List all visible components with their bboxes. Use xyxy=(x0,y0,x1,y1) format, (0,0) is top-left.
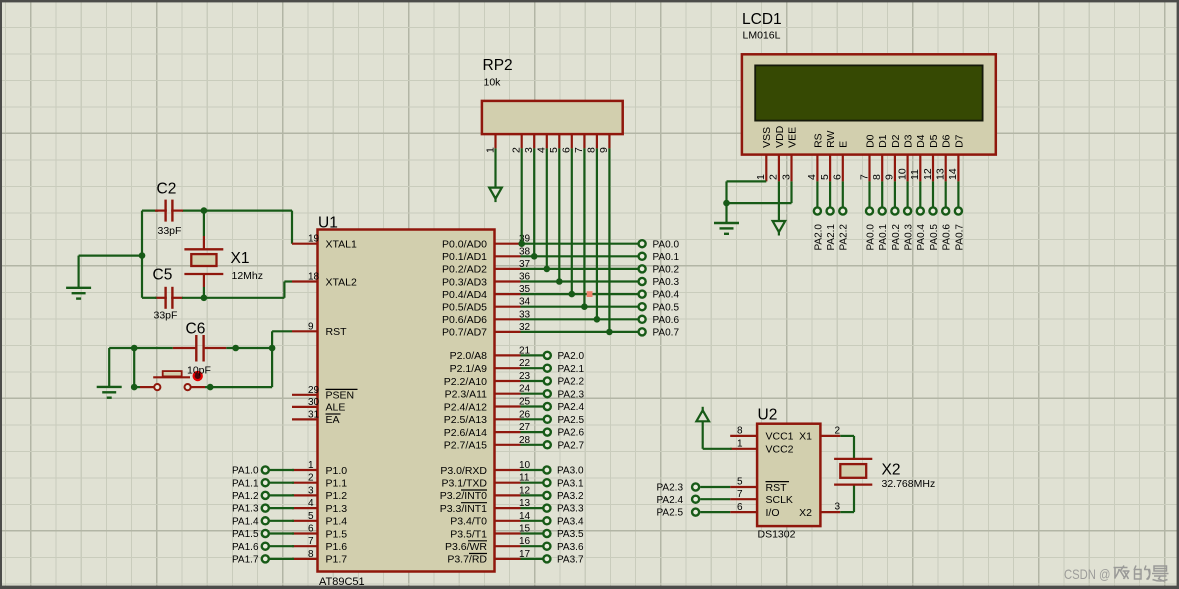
svg-text:I/O: I/O xyxy=(766,507,780,519)
wire LCD D4 to terminal xyxy=(919,181,921,207)
svg-text:P1.6: P1.6 xyxy=(326,541,348,553)
svg-text:VCC2: VCC2 xyxy=(766,444,794,456)
LCD pin 11 D4 (stub + number + name) xyxy=(909,134,927,181)
svg-text:PA2.3: PA2.3 xyxy=(657,483,684,494)
wire P0.5 row xyxy=(521,306,639,308)
junction button right lead xyxy=(207,384,214,391)
svg-text:PA0.5: PA0.5 xyxy=(653,302,680,313)
terminal PA2.4 (at P2.4) xyxy=(521,402,585,413)
RP2 pin 5 (stub + number) xyxy=(548,134,560,153)
terminal PA0.6 (LCD D6) xyxy=(942,207,953,250)
svg-text:PA0.6: PA0.6 xyxy=(942,224,953,251)
terminal PA2.1 (at P2.1) xyxy=(521,364,585,375)
wire LCD D3 to terminal xyxy=(906,181,908,207)
svg-text:P1.4: P1.4 xyxy=(326,516,348,528)
svg-text:RST: RST xyxy=(326,326,348,338)
svg-text:VEE: VEE xyxy=(786,127,798,148)
terminal PA2.5 (at P2.5) xyxy=(521,415,585,426)
svg-text:EA: EA xyxy=(326,414,340,426)
wire LCD D0 to terminal xyxy=(868,181,870,207)
U1 pin 33 P0.6/AD6 (stub + number + name) xyxy=(442,309,531,326)
svg-text:P1.5: P1.5 xyxy=(326,528,348,540)
svg-text:VSS: VSS xyxy=(761,127,773,148)
LCD pin 3 VEE (stub + number + name) xyxy=(780,127,798,182)
U2 pin 6 I/O (stub + number + name) xyxy=(730,502,779,519)
junction XTAL2/X1 bottom xyxy=(201,295,208,302)
svg-text:P1.7: P1.7 xyxy=(326,554,348,566)
svg-text:D7: D7 xyxy=(953,134,965,148)
svg-text:PA1.6: PA1.6 xyxy=(232,542,259,553)
U1 pin 32 P0.7/AD7 (stub + number + name) xyxy=(442,322,531,339)
svg-text:P3.7/RD: P3.7/RD xyxy=(447,554,487,566)
svg-text:P3.2/INT0: P3.2/INT0 xyxy=(440,490,487,502)
svg-text:PA3.3: PA3.3 xyxy=(557,504,584,515)
svg-text:29: 29 xyxy=(308,385,320,396)
svg-text:PA0.2: PA0.2 xyxy=(653,265,680,276)
wire LCD D7 to terminal xyxy=(957,181,959,207)
crystal X2 32.768MHz xyxy=(834,459,935,490)
svg-text:PA0.1: PA0.1 xyxy=(878,224,889,251)
LCD pin 7 D0 (stub + number + name) xyxy=(858,134,876,181)
junction RP2/P0.3 xyxy=(556,278,563,285)
terminal PA1.5 xyxy=(232,529,294,540)
LCD pin 5 RW (stub + number + name) xyxy=(819,131,837,182)
svg-text:31: 31 xyxy=(308,409,320,420)
svg-text:P2.1/A9: P2.1/A9 xyxy=(450,363,488,375)
terminal PA0.0 (LCD D0) xyxy=(865,207,876,250)
svg-text:PA3.1: PA3.1 xyxy=(557,478,584,489)
capacitor C2 33pF xyxy=(155,181,183,238)
wire LCD RW to terminal xyxy=(829,181,831,207)
svg-text:PA0.4: PA0.4 xyxy=(916,224,927,251)
microcontroller U1 AT89C51 body xyxy=(318,215,495,589)
LCD pin 13 D6 (stub + number + name) xyxy=(935,134,953,181)
wire RP2 pin 8 to P0.6 xyxy=(596,148,598,319)
svg-text:PA1.0: PA1.0 xyxy=(232,466,259,477)
RP2 pin 6 (stub + number) xyxy=(561,134,573,153)
U1 pin 37 P0.2/AD2 (stub + number + name) xyxy=(442,259,531,276)
wire RST net (C6 right / button right to U1 pin 9) xyxy=(205,331,292,387)
U1 pin 13 P3.3/INT1 (stub + number + name) xyxy=(440,498,531,515)
U1 pin 1 P1.0 (stub + number + name) xyxy=(292,460,347,477)
wire LCD RS to terminal xyxy=(816,181,818,207)
wire P0.0 row xyxy=(521,243,639,245)
terminal PA0.7 (LCD D7) xyxy=(954,207,965,250)
svg-text:XTAL1: XTAL1 xyxy=(326,239,357,251)
svg-text:2: 2 xyxy=(308,473,314,484)
svg-text:2: 2 xyxy=(768,174,780,180)
svg-text:CSDN @: CSDN @ xyxy=(1064,566,1111,582)
wire XTAL1 net (C2/X1 top to U1 pin 19) xyxy=(142,211,292,244)
svg-text:PA2.5: PA2.5 xyxy=(657,508,684,519)
U1 pin 16 P3.6/WR (stub + number + name) xyxy=(445,536,531,553)
svg-text:D0: D0 xyxy=(864,134,876,148)
wire LCD VDD to power xyxy=(778,181,780,221)
terminal PA3.2 xyxy=(521,491,584,502)
LCD LCD1 LM016L body xyxy=(742,11,996,155)
LCD pin 1 VSS (stub + number + name) xyxy=(755,127,773,182)
terminal PA0.1 (LCD D1) xyxy=(878,207,889,250)
U1 pin 17 P3.7/RD (stub + number + name) xyxy=(447,549,530,566)
U1 pin 7 P1.6 (stub + number + name) xyxy=(292,536,347,553)
LCD pin 14 D7 (stub + number + name) xyxy=(947,134,965,181)
U1 pin 5 P1.4 (stub + number + name) xyxy=(292,511,347,528)
svg-text:PA3.6: PA3.6 xyxy=(557,542,584,553)
terminal PA2.2 (LCD E) xyxy=(839,207,850,250)
svg-text:P0.5/AD5: P0.5/AD5 xyxy=(442,302,487,314)
svg-text:9: 9 xyxy=(308,321,314,332)
junction RP2/P0.5 xyxy=(581,303,588,310)
svg-text:P3.4/T0: P3.4/T0 xyxy=(450,516,487,528)
svg-text:PA0.0: PA0.0 xyxy=(865,224,876,251)
svg-text:PA2.0: PA2.0 xyxy=(558,351,585,362)
svg-text:PA0.6: PA0.6 xyxy=(653,315,680,326)
svg-text:PA1.1: PA1.1 xyxy=(232,478,259,489)
terminal PA3.5 xyxy=(521,529,584,540)
wire RP2 pin 7 to P0.5 xyxy=(583,148,585,306)
LCD screen xyxy=(755,65,982,120)
junction RP2/P0.4 xyxy=(569,291,576,298)
red overlap marker (C6 bottom) xyxy=(193,371,203,381)
U1 pin 39 P0.0/AD0 (stub + number + name) xyxy=(442,234,531,251)
svg-text:PA2.4: PA2.4 xyxy=(558,402,585,413)
U1 pin 14 P3.4/T0 (stub + number + name) xyxy=(450,511,530,528)
svg-text:P0.0/AD0: P0.0/AD0 xyxy=(442,239,487,251)
terminal PA2.5 xyxy=(657,508,731,519)
U1 pin 10 P3.0/RXD (stub + number + name) xyxy=(440,460,530,477)
power terminal (down arrow) below RP2 pin 1 xyxy=(489,188,502,203)
U1 pin 34 P0.5/AD5 (stub + number + name) xyxy=(442,297,531,314)
LCD pin 10 D3 (stub + number + name) xyxy=(896,134,914,181)
svg-text:P0.2/AD2: P0.2/AD2 xyxy=(442,264,487,276)
ground (crystal caps) xyxy=(66,288,91,299)
svg-text:P1.0: P1.0 xyxy=(326,465,348,477)
wire RP2 pin 5 to P0.3 xyxy=(558,148,560,281)
LCD pin 6 E (stub + number + name) xyxy=(832,141,850,182)
wire LCD D2 to terminal xyxy=(894,181,896,207)
U1 pin 38 P0.1/AD1 (stub + number + name) xyxy=(442,246,531,263)
terminal PA1.2 xyxy=(232,491,294,502)
wire LCD E to terminal xyxy=(842,181,844,207)
svg-text:9: 9 xyxy=(884,174,896,180)
svg-text:LCD1: LCD1 xyxy=(742,11,782,28)
terminal PA2.7 (at P2.7) xyxy=(521,440,585,451)
RP2 pin 3 (stub + number) xyxy=(523,134,535,153)
svg-text:PA2.1: PA2.1 xyxy=(558,364,585,375)
svg-text:P2.0/A8: P2.0/A8 xyxy=(450,350,488,362)
svg-text:P2.7/A15: P2.7/A15 xyxy=(444,440,487,452)
terminal PA0.1 xyxy=(639,252,680,263)
svg-text:PA0.3: PA0.3 xyxy=(904,224,915,251)
U1 pin 29 PSEN (stub + number + name) xyxy=(292,385,358,402)
U1 pin 22 P2.1/A9 (stub + number + name) xyxy=(450,358,531,375)
junction RP2/P0.1 xyxy=(531,253,538,260)
U1 pin 26 P2.5/A13 (stub + number + name) xyxy=(444,409,531,426)
svg-text:P1.1: P1.1 xyxy=(326,478,348,490)
svg-text:SCLK: SCLK xyxy=(766,494,793,506)
junction VSS/VEE ground net xyxy=(723,200,730,207)
svg-text:11: 11 xyxy=(909,169,921,180)
U1 pin 27 P2.6/A14 (stub + number + name) xyxy=(444,422,531,439)
wire P0.4 row xyxy=(521,293,639,295)
svg-text:12: 12 xyxy=(922,168,934,180)
terminal PA1.0 xyxy=(232,466,294,477)
power terminal (up arrow) at U2 VCC2 xyxy=(696,407,709,422)
U2 pin 7 SCLK (stub + number + name) xyxy=(730,489,793,506)
svg-text:X2: X2 xyxy=(799,507,812,519)
svg-text:X1: X1 xyxy=(231,250,250,267)
svg-text:C2: C2 xyxy=(157,181,177,198)
svg-text:10k: 10k xyxy=(484,77,502,89)
wire RP2 pin 9 to P0.7 xyxy=(608,148,610,332)
svg-text:C5: C5 xyxy=(153,267,173,284)
terminal PA2.0 (at P2.0) xyxy=(521,351,585,362)
terminal PA3.4 xyxy=(521,516,584,527)
watermark CSDN xyxy=(1064,566,1169,583)
wire U2 VCC2 to power xyxy=(703,421,732,449)
svg-text:PA0.1: PA0.1 xyxy=(653,252,680,263)
U1 pin 2 P1.1 (stub + number + name) xyxy=(292,473,347,490)
svg-text:P0.6/AD6: P0.6/AD6 xyxy=(442,314,487,326)
U1 pin 9 RST (stub + number + name) xyxy=(292,321,347,338)
crystal X1 12Mhz xyxy=(184,236,263,287)
svg-text:8: 8 xyxy=(871,174,883,180)
junction RP2/P0.7 xyxy=(606,329,613,336)
svg-text:4: 4 xyxy=(806,174,818,180)
svg-text:13: 13 xyxy=(935,168,947,180)
svg-text:PA0.2: PA0.2 xyxy=(891,224,902,251)
U1 pin 23 P2.2/A10 (stub + number + name) xyxy=(444,371,531,388)
wire LCD VEE to ground xyxy=(727,181,792,203)
svg-text:VCC1: VCC1 xyxy=(766,431,794,443)
wire LCD D5 to terminal xyxy=(932,181,934,207)
svg-text:P3.5/T1: P3.5/T1 xyxy=(450,528,487,540)
U1 pin 24 P2.3/A11 (stub + number + name) xyxy=(445,384,531,401)
svg-text:P2.2/A10: P2.2/A10 xyxy=(444,376,487,388)
terminal PA0.3 (LCD D3) xyxy=(904,207,915,250)
terminal PA2.0 (LCD RS) xyxy=(813,207,824,250)
svg-text:PA3.4: PA3.4 xyxy=(557,516,584,527)
wire RP2 pin 6 to P0.4 xyxy=(571,148,573,294)
wire P0.2 row xyxy=(521,268,639,270)
LCD pin 2 VDD (stub + number + name) xyxy=(768,125,786,181)
svg-text:PA0.5: PA0.5 xyxy=(929,224,940,251)
svg-text:P0.3/AD3: P0.3/AD3 xyxy=(442,276,487,288)
svg-text:U2: U2 xyxy=(758,407,778,424)
svg-text:14: 14 xyxy=(947,168,959,180)
svg-text:PA1.5: PA1.5 xyxy=(232,529,259,540)
wire GND net left (C2/C5 left side) xyxy=(79,211,142,298)
svg-text:7: 7 xyxy=(737,489,743,500)
wire RP2 pin 3 to P0.1 xyxy=(533,148,535,256)
junction button-left bottom xyxy=(131,384,138,391)
svg-text:1: 1 xyxy=(755,174,767,180)
terminal PA0.4 xyxy=(639,290,680,301)
red conflict marker on P0.4 wire xyxy=(587,291,593,297)
terminal PA0.2 (LCD D2) xyxy=(891,207,902,250)
svg-text:5: 5 xyxy=(308,511,314,522)
svg-text:P2.6/A14: P2.6/A14 xyxy=(444,427,487,439)
wire P0.1 row xyxy=(521,255,639,257)
wire RP2 pin 2 to P0.0 xyxy=(521,148,523,243)
svg-text:2: 2 xyxy=(834,425,840,436)
svg-text:RST: RST xyxy=(766,482,788,494)
U1 pin 36 P0.3/AD3 (stub + number + name) xyxy=(442,272,531,289)
LCD pin 12 D5 (stub + number + name) xyxy=(922,134,940,181)
junction XTAL1/X1 top xyxy=(201,207,208,214)
svg-text:P3.0/RXD: P3.0/RXD xyxy=(440,465,487,477)
terminal PA1.1 xyxy=(232,478,294,489)
terminal PA1.6 xyxy=(232,542,294,553)
wire P0.7 row xyxy=(521,331,639,333)
capacitor C5 33pF xyxy=(153,267,184,322)
svg-text:6: 6 xyxy=(737,502,743,513)
terminal PA0.5 (LCD D5) xyxy=(929,207,940,250)
junction RP2/P0.6 xyxy=(594,316,601,323)
svg-text:PA2.1: PA2.1 xyxy=(826,224,837,251)
wire LCD VSS to ground xyxy=(727,181,767,223)
svg-text:PA1.4: PA1.4 xyxy=(232,516,259,527)
svg-text:D6: D6 xyxy=(941,134,953,148)
svg-text:PA2.6: PA2.6 xyxy=(558,428,585,439)
terminal PA0.5 xyxy=(639,302,680,313)
svg-text:P3.3/INT1: P3.3/INT1 xyxy=(440,503,487,515)
svg-text:8: 8 xyxy=(308,549,314,560)
svg-text:RP2: RP2 xyxy=(483,57,513,74)
terminal PA2.1 (LCD RW) xyxy=(826,207,837,250)
svg-text:32.768MHz: 32.768MHz xyxy=(882,478,936,490)
svg-text:19: 19 xyxy=(308,234,320,245)
svg-text:7: 7 xyxy=(858,174,870,180)
terminal PA3.7 xyxy=(521,555,584,566)
terminal PA0.6 xyxy=(639,315,680,326)
resistor pack RP2 10k body xyxy=(482,57,623,134)
wire RP2 pin 1 to power xyxy=(494,148,496,187)
svg-text:PA2.0: PA2.0 xyxy=(813,224,824,251)
U1 pin 15 P3.5/T1 (stub + number + name) xyxy=(450,524,530,541)
svg-text:RS: RS xyxy=(812,133,824,148)
svg-text:PA3.2: PA3.2 xyxy=(557,491,584,502)
svg-text:18: 18 xyxy=(308,272,320,283)
svg-text:C6: C6 xyxy=(186,321,206,338)
svg-text:PA2.7: PA2.7 xyxy=(558,440,585,451)
svg-text:P0.4/AD4: P0.4/AD4 xyxy=(442,289,487,301)
svg-text:PA2.3: PA2.3 xyxy=(558,389,585,400)
U2 pin 8 VCC1 (stub + number + name) xyxy=(730,426,793,443)
wire LCD D6 to terminal xyxy=(945,181,947,207)
U1 pin 25 P2.4/A12 (stub + number + name) xyxy=(444,397,531,414)
svg-text:PA1.3: PA1.3 xyxy=(232,504,259,515)
svg-text:P0.7/AD7: P0.7/AD7 xyxy=(442,327,487,339)
svg-text:33pF: 33pF xyxy=(154,310,178,322)
U1 pin 21 P2.0/A8 (stub + number + name) xyxy=(450,345,531,362)
svg-text:PA0.4: PA0.4 xyxy=(653,290,680,301)
svg-text:AT89C51: AT89C51 xyxy=(319,576,365,588)
ground (LCD) xyxy=(714,223,739,234)
svg-text:P1.2: P1.2 xyxy=(326,490,348,502)
svg-text:PSEN: PSEN xyxy=(326,390,355,402)
power terminal (down arrow) below LCD VDD xyxy=(773,221,786,236)
svg-text:PA3.5: PA3.5 xyxy=(557,529,584,540)
svg-text:6: 6 xyxy=(832,174,844,180)
U2 pin 2 X1 (stub + number + name) xyxy=(799,425,840,442)
svg-text:12Mhz: 12Mhz xyxy=(232,270,264,282)
wire U2 X2 to crystal X2 bottom xyxy=(840,485,854,512)
terminal PA0.7 xyxy=(639,328,680,339)
U1 pin 12 P3.2/INT0 (stub + number + name) xyxy=(440,485,531,502)
svg-text:XTAL2: XTAL2 xyxy=(326,276,357,288)
svg-text:10pF: 10pF xyxy=(187,365,211,377)
svg-text:D3: D3 xyxy=(903,134,915,148)
svg-text:PA1.7: PA1.7 xyxy=(232,555,259,566)
RTC U2 DS1302 body xyxy=(757,407,820,541)
U1 pin 30 ALE (stub + number + name) xyxy=(292,397,345,414)
ground (reset button) xyxy=(97,387,122,398)
U1 pin 31 EA (stub + number + name) xyxy=(292,409,341,426)
svg-text:10: 10 xyxy=(896,168,908,180)
junction RP2/P0.0 xyxy=(518,240,525,247)
terminal PA2.4 xyxy=(657,495,731,506)
junction C6 right lead xyxy=(232,345,239,352)
svg-text:P2.5/A13: P2.5/A13 xyxy=(444,414,487,426)
push button (reset) xyxy=(140,371,205,390)
U2 pin 1 VCC2 (stub + number + name) xyxy=(730,439,793,456)
svg-text:P3.6/WR: P3.6/WR xyxy=(445,541,487,553)
terminal PA0.2 xyxy=(639,265,680,276)
svg-text:U1: U1 xyxy=(318,215,338,232)
terminal PA1.4 xyxy=(232,516,294,527)
svg-text:3: 3 xyxy=(780,174,792,180)
RP2 pin 4 (stub + number) xyxy=(536,134,548,153)
svg-text:PA3.7: PA3.7 xyxy=(557,555,584,566)
U1 pin 4 P1.3 (stub + number + name) xyxy=(292,498,347,515)
svg-text:PA2.2: PA2.2 xyxy=(839,224,850,251)
U2 pin 5 RST (stub + number + name) xyxy=(730,477,789,494)
svg-text:30: 30 xyxy=(308,397,320,408)
junction C2/C5 left xyxy=(139,252,146,259)
junction RST vertical / C6 wire xyxy=(269,345,276,352)
terminal PA2.6 (at P2.6) xyxy=(521,428,585,439)
U1 pin 35 P0.4/AD4 (stub + number + name) xyxy=(442,284,531,301)
svg-text:PA2.2: PA2.2 xyxy=(558,377,585,388)
svg-text:3: 3 xyxy=(834,502,840,513)
svg-text:6: 6 xyxy=(308,524,314,535)
LCD pin 9 D2 (stub + number + name) xyxy=(884,134,902,181)
terminal PA3.0 xyxy=(521,466,584,477)
wire P0.3 row xyxy=(521,280,639,282)
svg-text:E: E xyxy=(838,141,850,148)
terminal PA2.2 (at P2.2) xyxy=(521,377,585,388)
svg-text:1: 1 xyxy=(308,460,314,471)
terminal PA0.3 xyxy=(639,277,680,288)
RP2 pin 9 (stub + number) xyxy=(598,134,610,153)
svg-text:ALE: ALE xyxy=(326,402,346,414)
svg-text:P0.1/AD1: P0.1/AD1 xyxy=(442,251,487,263)
svg-text:3: 3 xyxy=(308,485,314,496)
terminal PA2.3 (at P2.3) xyxy=(521,389,585,400)
svg-text:RW: RW xyxy=(825,131,837,148)
U1 pin 3 P1.2 (stub + number + name) xyxy=(292,485,347,502)
svg-text:PA1.2: PA1.2 xyxy=(232,491,259,502)
svg-text:VDD: VDD xyxy=(774,125,786,148)
U1 pin 8 P1.7 (stub + number + name) xyxy=(292,549,347,566)
svg-text:X1: X1 xyxy=(799,431,812,443)
RP2 pin 8 (stub + number) xyxy=(586,134,598,153)
LCD pin 8 D1 (stub + number + name) xyxy=(871,134,889,181)
svg-text:PA2.5: PA2.5 xyxy=(558,415,585,426)
U1 pin 19 XTAL1 (stub + number + name) xyxy=(292,234,357,251)
svg-text:PA2.4: PA2.4 xyxy=(657,495,684,506)
